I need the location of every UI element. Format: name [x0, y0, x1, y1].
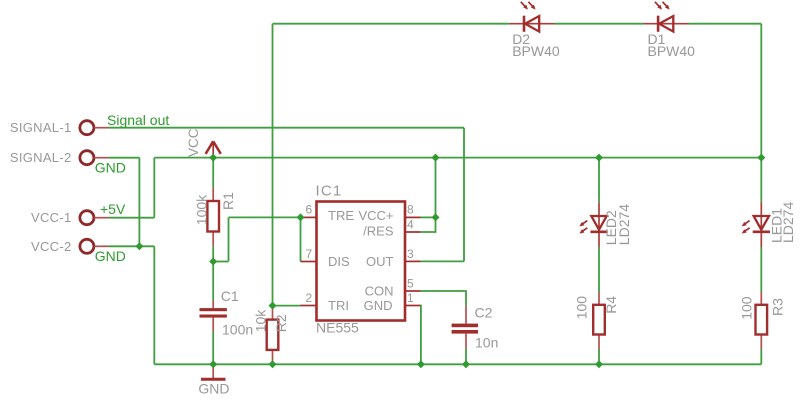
svg-text:100n: 100n: [222, 322, 253, 338]
resistor R1: [207, 187, 219, 246]
wire VCC column to LED1: [760, 158, 762, 203]
junction node pin8 pin4 branch: [432, 213, 440, 221]
svg-text:OUT: OUT: [366, 254, 394, 269]
svg-text:3: 3: [407, 247, 414, 261]
svg-text:100: 100: [739, 296, 755, 320]
power symbol VCC arrow: [206, 141, 221, 157]
wire TRE to DIS vertical: [300, 217, 302, 261]
wire LED1 to R3: [760, 247, 762, 292]
pad SIGNAL-1: [80, 121, 94, 135]
svg-text:VCC+: VCC+: [358, 208, 393, 223]
junction node VCC arrow: [209, 154, 217, 162]
svg-text:R1: R1: [220, 192, 236, 210]
wire to pin 4 RES: [421, 217, 436, 232]
pad VCC-2: [80, 239, 94, 253]
svg-text:+5V: +5V: [100, 201, 126, 217]
wire OUT to signal column: [421, 260, 465, 262]
wire VCC-2 GND horizontal: [109, 245, 154, 247]
svg-text:CON: CON: [365, 283, 394, 298]
svg-text:10k: 10k: [253, 309, 269, 333]
pin 4 /RES stub: [405, 231, 421, 233]
junction node LED2 column at VCC rail: [595, 154, 603, 162]
wire C1 bottom to rail: [212, 332, 214, 365]
wire SIGNAL-2 GND vertical: [138, 158, 140, 247]
wire Signal out vertical: [463, 128, 465, 262]
wire R1 bottom to node: [212, 246, 214, 261]
junction node LED1 column at VCC rail: [757, 154, 765, 162]
svg-text:DIS: DIS: [328, 254, 350, 269]
svg-text:GND: GND: [198, 381, 229, 397]
photodiode D1: [644, 2, 689, 32]
wire pin 5 CON to C2: [421, 291, 467, 306]
pin 6 TRE stub: [301, 216, 317, 218]
LED LED1: [742, 202, 770, 247]
wire Signal out horizontal: [109, 127, 464, 129]
svg-text:10n: 10n: [475, 335, 498, 351]
wire TRI vertical: [272, 24, 274, 306]
svg-text:NE555: NE555: [316, 320, 359, 336]
svg-text:VCC-2: VCC-2: [31, 239, 72, 254]
wire TRE link vertical: [228, 217, 230, 261]
pin 3 OUT stub: [405, 260, 421, 262]
wire VCC rail horizontal: [154, 157, 761, 159]
wire +5V horizontal: [109, 217, 154, 219]
wire top rail segment 1: [273, 23, 510, 25]
wire top rail segment 3: [689, 23, 762, 25]
wire VCC to R1 top: [212, 158, 214, 188]
svg-text:R3: R3: [770, 298, 786, 316]
junction node pin1 rail: [417, 360, 425, 368]
ground symbol: [201, 364, 226, 379]
resistor R3: [756, 292, 768, 350]
svg-text:R2: R2: [273, 314, 289, 332]
wire R4 to rail: [598, 350, 600, 365]
wire VCC rail to pin 8 vertical: [435, 158, 437, 218]
svg-text:Signal out: Signal out: [107, 112, 169, 128]
svg-text:BPW40: BPW40: [512, 43, 560, 59]
svg-text:7: 7: [306, 247, 313, 261]
wire TRI node to pin 2: [273, 305, 301, 307]
svg-text:SIGNAL-1: SIGNAL-1: [10, 120, 72, 135]
svg-text:IC1: IC1: [316, 183, 343, 200]
pin 1 GND stub: [405, 305, 421, 307]
svg-text:R4: R4: [603, 296, 619, 314]
svg-text:VCC-1: VCC-1: [31, 210, 72, 225]
wire +5V vertical: [153, 158, 155, 218]
wire SIGNAL-2 GND horizontal: [109, 157, 139, 159]
svg-text:/RES: /RES: [363, 224, 394, 239]
junction node R2 rail: [269, 360, 277, 368]
svg-text:VCC: VCC: [186, 128, 201, 157]
wire node to C1 top: [212, 262, 214, 301]
capacitor C1: [200, 301, 227, 332]
junction node TRE pin: [297, 213, 305, 221]
pad SIGNAL-2: [80, 151, 94, 165]
pin 2 TRI stub: [301, 305, 317, 307]
junction node TRI R2: [269, 302, 277, 310]
wire node to TRE link horizontal: [213, 261, 228, 263]
LED LED2: [579, 202, 607, 247]
svg-text:TRE: TRE: [328, 208, 354, 223]
svg-text:2: 2: [306, 291, 313, 305]
svg-text:C2: C2: [475, 304, 493, 320]
junction node GND verticals: [135, 242, 143, 250]
svg-text:LD274: LD274: [780, 202, 796, 243]
resistor R2: [267, 306, 279, 365]
wire LED2 to R4: [598, 247, 600, 292]
svg-text:GND: GND: [95, 159, 126, 175]
wire GND vertical to bottom rail: [153, 246, 155, 364]
wire pin 1 GND to rail: [420, 306, 422, 365]
wire riser to R3 bottom: [760, 350, 762, 365]
pad VCC-1: [80, 211, 94, 225]
junction node R1 bottom: [209, 258, 217, 266]
wire top rail right vertical: [760, 24, 762, 158]
pin 5 CON stub: [405, 290, 421, 292]
svg-text:BPW40: BPW40: [648, 43, 696, 59]
svg-text:SIGNAL-2: SIGNAL-2: [10, 150, 72, 165]
svg-text:4: 4: [407, 218, 414, 232]
wire top rail segment 2: [555, 23, 644, 25]
wire to pin 6 TRE: [229, 216, 301, 218]
svg-text:5: 5: [407, 277, 414, 291]
svg-text:C1: C1: [221, 288, 239, 304]
pin 8 VCC+ stub: [405, 216, 421, 218]
wire to pin 8: [421, 216, 436, 218]
wire C2 bottom to rail: [465, 349, 467, 365]
pin 7 DIS stub: [301, 261, 317, 263]
wire bottom GND rail: [154, 363, 761, 365]
junction node C1 GND rail: [209, 360, 217, 368]
svg-text:100: 100: [574, 296, 590, 320]
svg-text:GND: GND: [364, 298, 393, 313]
svg-text:100k: 100k: [194, 194, 210, 225]
photodiode D2: [509, 2, 554, 32]
svg-text:6: 6: [306, 203, 313, 217]
svg-text:GND: GND: [95, 248, 126, 264]
wire VCC rail to LED2: [598, 158, 600, 203]
junction node C2 rail: [462, 360, 470, 368]
op-amp timer IC1 NE555 body: [317, 202, 406, 321]
svg-text:1: 1: [407, 291, 414, 305]
svg-text:8: 8: [407, 203, 414, 217]
resistor R4: [593, 292, 605, 350]
capacitor C2: [452, 306, 478, 349]
svg-text:LD274: LD274: [616, 204, 632, 245]
svg-text:TRI: TRI: [328, 298, 349, 313]
junction node R4 rail: [595, 360, 603, 368]
junction node pin8 column at VCC rail: [432, 154, 440, 162]
